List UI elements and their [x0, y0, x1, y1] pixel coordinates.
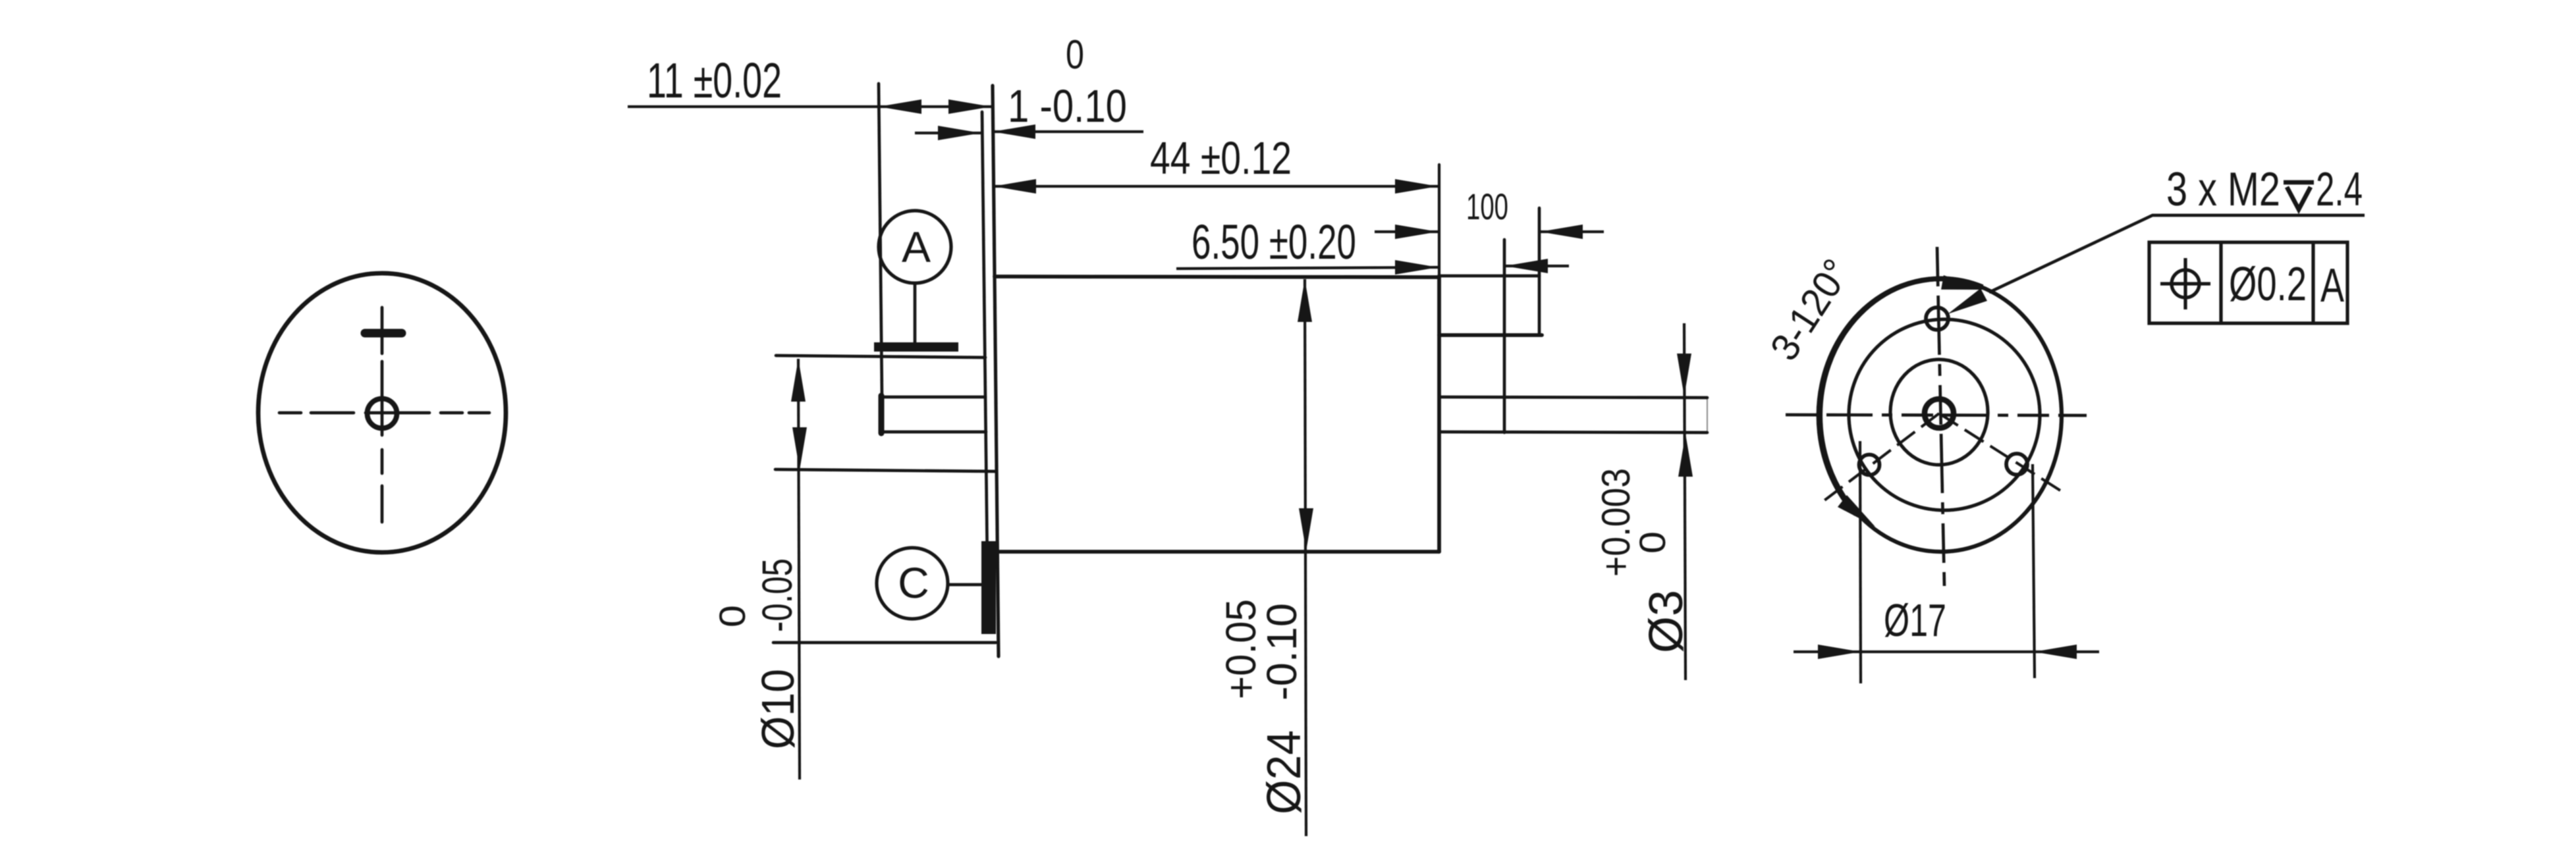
- svg-text:6.50 ±0.20: 6.50 ±0.20: [1192, 215, 1356, 269]
- svg-text:Ø10: Ø10: [752, 669, 804, 749]
- rear view lower-right screw hole: [2006, 454, 2027, 475]
- front view outer circle: [258, 273, 506, 552]
- svg-text:+0.05: +0.05: [1217, 599, 1265, 699]
- motor body top line: [995, 277, 1439, 277]
- position symbol: [2172, 270, 2199, 298]
- rear housing bottom line: [1439, 333, 1542, 337]
- rear view horizontal centerline: [1786, 415, 2087, 415]
- dimension dia17: [1794, 441, 2099, 683]
- side view front extension/profile line: [879, 84, 882, 396]
- front view horizontal centerline: [279, 411, 489, 415]
- dimension 11 +/-0.02: [628, 99, 992, 114]
- rear housing top line: [1439, 275, 1539, 278]
- dimension 100: [1375, 225, 1604, 239]
- motor body rear edge: [1437, 276, 1441, 552]
- rear shaft bottom line: [1439, 432, 1707, 433]
- radial centerline to lower-left hole: [1822, 413, 1939, 502]
- rear view bolt circle: [1849, 319, 2040, 510]
- rear view inner circle: [1890, 359, 1988, 465]
- svg-text:0: 0: [1066, 32, 1084, 78]
- svg-text:C: C: [898, 558, 929, 607]
- svg-text:100: 100: [1466, 186, 1508, 227]
- rear view lower-left screw hole: [1859, 455, 1880, 475]
- dimension 44 +/-0.12: [993, 179, 1438, 194]
- svg-text:11 ±0.02: 11 ±0.02: [647, 53, 782, 108]
- shaft bottom line: [882, 431, 986, 434]
- front view shaft hole: [368, 399, 397, 429]
- front view vertical centerline: [381, 307, 384, 522]
- flange bottom line: [773, 641, 996, 645]
- svg-text:1 -0.10: 1 -0.10: [1008, 80, 1127, 132]
- boss bottom line: [775, 469, 996, 471]
- motor body bottom line: [997, 550, 1439, 554]
- shaft end face thick edge: [879, 396, 885, 433]
- svg-text:A: A: [2320, 259, 2344, 312]
- svg-text:+0.003: +0.003: [1594, 468, 1638, 577]
- dimension 6.50 +/-0.20: [1176, 259, 1569, 275]
- svg-text:0: 0: [711, 605, 753, 627]
- leader arrow to top hole: [1948, 288, 1987, 314]
- dimension dia24 +0.05/-0.10: [1298, 279, 1313, 836]
- dimension dia3 +0.003/0: [1677, 323, 1693, 680]
- rear shaft end line: [1707, 399, 1708, 431]
- rear boss end line: [1503, 240, 1506, 433]
- dimension dia10 0/-0.05: [791, 359, 807, 780]
- datum feature A symbol: [874, 211, 958, 347]
- 120 degree dimension arc: [1819, 278, 1983, 514]
- depth symbol: [2284, 182, 2314, 209]
- rear view outer circle: [1786, 247, 2087, 586]
- rear view vertical centerline: [1937, 247, 1944, 586]
- svg-text:Ø24: Ø24: [1258, 730, 1311, 814]
- feature control frame: [2149, 242, 2347, 323]
- svg-text:-0.10: -0.10: [1258, 603, 1305, 701]
- rear view top screw hole: [1926, 307, 1948, 330]
- shaft top line: [882, 396, 985, 399]
- svg-text:Ø0.2: Ø0.2: [2229, 258, 2307, 311]
- svg-text:A: A: [902, 223, 931, 271]
- svg-text:3 x M2: 3 x M2: [2166, 163, 2280, 216]
- svg-text:2.4: 2.4: [2316, 163, 2363, 216]
- motor front face line: [993, 86, 999, 656]
- svg-text:44 ±0.12: 44 ±0.12: [1150, 132, 1292, 184]
- boss top line: [776, 356, 985, 357]
- datum feature C symbol: [877, 541, 989, 634]
- arc arrow bottom: [1838, 495, 1875, 527]
- label 3 x M2 depth 2.4 with leader: [1989, 215, 2365, 292]
- svg-text:Ø3: Ø3: [1640, 590, 1693, 653]
- arc arrow top: [1941, 275, 1985, 297]
- dimension 1 0/-0.10: [915, 124, 1143, 140]
- svg-text:Ø17: Ø17: [1884, 595, 1946, 646]
- rear view center hole: [1925, 399, 1954, 428]
- rear shaft top line: [1439, 397, 1707, 398]
- flange rear line: [982, 112, 987, 566]
- rear housing end line: [1538, 208, 1541, 335]
- front view datum target bar: [365, 329, 402, 338]
- rear edge extension line: [1438, 165, 1440, 276]
- radial centerline to lower-right hole: [1939, 413, 2060, 490]
- svg-text:-0.05: -0.05: [754, 558, 801, 632]
